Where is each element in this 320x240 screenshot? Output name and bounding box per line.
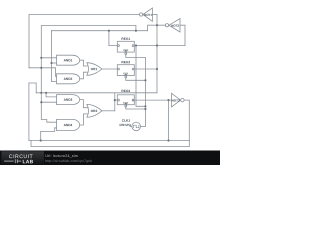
wire REG3.Q to NOT3 input (133, 99, 172, 101)
wire AND1.in2 stub (52, 62, 57, 64)
labels (64, 13, 180, 127)
wire AND1 out to OR1.in1 (80, 60, 88, 66)
wire NOT1 input stub (152, 14, 157, 16)
svg-text:Url: lecture24_sim: Url: lecture24_sim (45, 154, 78, 158)
source CLK1 (132, 122, 141, 131)
wire left lower vertical to bottom bus (28, 83, 30, 141)
wire REG1 clk staircase (126, 55, 146, 58)
logo CIRCUITLAB (4, 154, 34, 165)
svg-text:LAB: LAB (23, 159, 34, 165)
svg-text:AND4: AND4 (64, 123, 73, 127)
wire AND2.in1 jog from V1 (29, 68, 57, 77)
svg-text:CLK: CLK (123, 72, 128, 75)
wire bottom bus 2 (31, 141, 189, 147)
AND gate AND1 (57, 55, 80, 65)
node busA/REG2.Q (156, 68, 158, 70)
junction dots (40, 24, 170, 141)
node vert/bottombus (167, 139, 169, 141)
svg-text:NOT1: NOT1 (144, 13, 152, 17)
node bottombus/AND4 (40, 139, 42, 141)
wire REG2.Q output line (134, 68, 157, 70)
wire AND4 out to OR2.in2 (80, 114, 88, 125)
svg-text:AND1: AND1 (64, 58, 73, 62)
wire NOT3 output down to bottom bus (184, 100, 189, 140)
wire REG1.Q output line (134, 45, 185, 47)
wire long feedback line y=92.8 (36, 92, 157, 94)
wire vertical from NOT3 input net to bottom bus (168, 100, 170, 140)
wire C3 riser to NOT2 bubble (148, 25, 166, 31)
node clkbus/REG2 (144, 79, 146, 81)
wire bottom bus 1 (29, 140, 189, 142)
wire OR1 out to REG2.D (102, 68, 117, 70)
wire V3 vertical to AND1.in2 and AND2.in2 (52, 31, 57, 82)
wire CLK1 right terminal (141, 125, 146, 127)
wire left lower staircase (29, 83, 36, 93)
wire AND3 out to OR2.in1 (80, 100, 88, 108)
svg-text:OR1: OR1 (91, 67, 98, 71)
node C3/REG1.D (108, 30, 110, 32)
node busA/C3riser line (156, 24, 158, 26)
wire top feedback line 3 (C3) (52, 30, 148, 32)
node V2/y67.8 (40, 67, 42, 69)
wire top feedback line 1 (NOT1 output to V1) (29, 15, 139, 68)
wire NOT2 input down to REG1.Q line (180, 25, 185, 45)
node V3/AND1.in2 (50, 62, 52, 64)
register REG1 box (117, 41, 134, 52)
wire OR2 out (102, 110, 115, 112)
svg-text:NOT2: NOT2 (171, 24, 179, 28)
node V2/AND1.in1 (40, 57, 42, 59)
svg-text:http://circuitlab.com/cpv7gnk: http://circuitlab.com/cpv7gnk (45, 159, 92, 163)
node NOT3in/vert (167, 99, 169, 101)
node C2/C3 (135, 30, 137, 32)
OR gate OR2 (87, 104, 102, 117)
node V2/y92.8 (40, 92, 42, 94)
node REG3.D riser/pin (114, 99, 116, 101)
wire AND2 out to OR1.in2 (80, 72, 88, 79)
AND gate AND3 (57, 95, 80, 105)
node AND3drop/y92.8 (45, 92, 47, 94)
svg-text:CLK: CLK (123, 49, 128, 52)
svg-text:REG1: REG1 (121, 37, 130, 41)
svg-text:NOT3: NOT3 (172, 98, 180, 102)
svg-text:REG2: REG2 (121, 60, 130, 64)
register REG2 box (117, 65, 134, 76)
wire AND1.in1 from V2 (41, 57, 56, 59)
AND gate AND2 (57, 74, 80, 84)
svg-text:AND3: AND3 (64, 98, 73, 102)
inverter NOT1 (143, 8, 153, 21)
wire C2-C3 join stub (135, 26, 137, 31)
node busB/REG1.Q (135, 44, 137, 46)
wire REG3.D riser (114, 93, 116, 111)
wire top feedback line 2 (C2) (41, 26, 136, 123)
svg-text:CIRCUIT: CIRCUIT (9, 154, 34, 160)
wire REG3.D pin stub (115, 99, 118, 101)
wire CLK1 left stub (130, 125, 132, 127)
node V2/AND3.in2 (40, 101, 42, 103)
node busA/REG1.Q (156, 44, 158, 46)
register REG3 box (117, 95, 134, 105)
footer bar (0, 151, 220, 166)
inverter NOT3 (172, 93, 181, 107)
node clkbus/busB (144, 105, 146, 107)
wire REG1.D feed from C3 (109, 31, 117, 46)
svg-text:100 kHz: 100 kHz (119, 123, 131, 127)
wire AND3.in2 from V2 (41, 101, 56, 103)
svg-text:REG3: REG3 (121, 89, 130, 93)
wire REG2 clk staircase (126, 78, 146, 80)
wire AND4.in2 link to bottom bus (41, 128, 57, 141)
inverter NOT2 (169, 19, 180, 32)
wire bus A vertical (NOT1 in / REG2.Q) (156, 15, 158, 93)
wire clock bus vertical (144, 58, 146, 127)
wire bus B from REG1.Q down and right (136, 46, 145, 107)
svg-text:AND2: AND2 (64, 77, 73, 81)
AND gate AND4 (57, 119, 80, 130)
node clkbus/REG3 (144, 108, 146, 110)
wire REG3 clk staircase (126, 107, 146, 109)
footer text (45, 154, 92, 163)
wire AND3.in1 drop (46, 93, 56, 97)
OR gate OR1 (87, 63, 102, 76)
svg-text:OR2: OR2 (91, 109, 98, 113)
svg-text:CLK: CLK (123, 102, 128, 105)
